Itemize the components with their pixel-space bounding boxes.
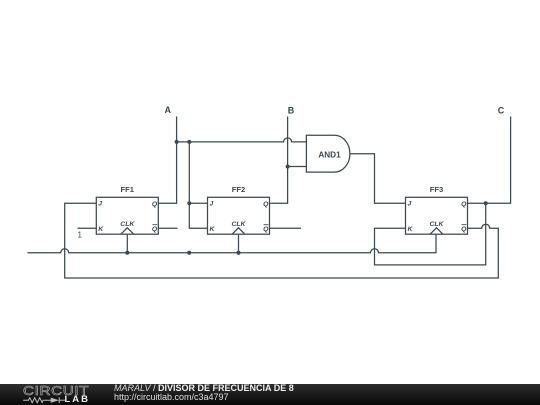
CircuitLab logo schematic squiggle (resistor + diode): [0, 384, 110, 405]
flip-flop FF3: [406, 197, 468, 234]
AND gate AND1: [306, 135, 349, 172]
svg-text:AND1: AND1: [318, 151, 341, 160]
wire: FF3 Qbar down and back to FF1 J (hop over feedback riser): [65, 203, 499, 278]
flip-flop FF2: [208, 197, 270, 234]
svg-text:Q: Q: [263, 201, 269, 208]
CircuitLab logo word CIRCUIT: [23, 383, 89, 398]
wire: FF2 Qbar stub: [269, 227, 301, 229]
svg-text:A: A: [164, 105, 171, 115]
junction on A line at A riser: [175, 140, 179, 144]
svg-text:Q: Q: [152, 201, 158, 208]
junction at AND1 input 2 branch: [286, 165, 290, 169]
wire: clock input line (hops over FF1-J riser and FF3-K riser) to FF3 CLK: [27, 234, 436, 253]
svg-text:CLK: CLK: [430, 221, 445, 228]
wire: FF3 Q to node C: [467, 117, 510, 204]
svg-text:C: C: [498, 105, 505, 115]
wire: FF3 K to FF3 Q feedback: [375, 203, 486, 265]
svg-text:FF1: FF1: [121, 185, 135, 194]
wire: A line to AND1 input 1 (hop over B): [177, 138, 307, 142]
flip-flop FF1: [96, 197, 158, 234]
footer line 1: author / title: [114, 383, 294, 393]
junction on A line at FF2 branch: [187, 140, 191, 144]
svg-text:FF3: FF3: [430, 185, 444, 194]
svg-text:Q: Q: [461, 201, 467, 208]
wire: B branch to AND1 input 2: [288, 166, 307, 168]
svg-text:Q: Q: [263, 226, 269, 233]
junction at FF2 CLK: [237, 251, 241, 255]
svg-text:J: J: [210, 201, 214, 208]
junction at FF3 Q / feedback: [484, 201, 488, 205]
wire: FF2 Q up to node B: [269, 117, 287, 204]
footer line 2: url: [114, 392, 229, 402]
svg-text:Q: Q: [461, 226, 467, 233]
wire: A branch down to FF2 J: [189, 142, 207, 203]
wire: FF1 CLK stub: [126, 234, 128, 253]
svg-text:CLK: CLK: [120, 221, 135, 228]
wire: AND1 output to FF3 J: [350, 154, 406, 204]
svg-text:Q: Q: [152, 226, 158, 233]
wire: FF2 CLK stub: [238, 234, 240, 253]
svg-text:CLK: CLK: [232, 221, 247, 228]
junction on clock line: [187, 251, 191, 255]
wire: FF1 Q up to node A: [158, 117, 176, 204]
svg-text:J: J: [98, 201, 102, 208]
wire: FF1 Qbar stub: [158, 227, 177, 229]
footer bar: [0, 384, 540, 405]
junction at FF2 J branch: [187, 201, 191, 205]
wire: FF2 J to FF2 K link: [189, 203, 207, 228]
CircuitLab logo word LAB: [65, 394, 91, 405]
svg-text:B: B: [288, 105, 295, 115]
wire: constant 1 stub to FF1 K: [78, 227, 97, 229]
junction at FF1 CLK: [125, 251, 129, 255]
svg-text:1: 1: [77, 231, 82, 240]
svg-text:FF2: FF2: [232, 185, 246, 194]
svg-text:J: J: [408, 201, 412, 208]
